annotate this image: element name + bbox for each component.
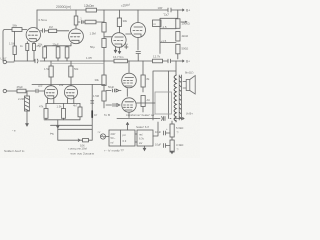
svg-text:AC: AC xyxy=(147,98,151,102)
svg-text:ɦʏ B: ɦʏ B xyxy=(104,113,110,117)
resistor R16 plate V5 xyxy=(69,61,79,85)
svg-text:10ʹ: 10ʹ xyxy=(94,114,98,117)
resistor R10 ladder bottom xyxy=(176,44,188,59)
resistor R11 mid rail decoupling xyxy=(113,55,128,63)
resistor R1 on top rail xyxy=(84,4,97,12)
svg-text:22kʹ: 22kʹ xyxy=(59,83,64,87)
svg-text:240ʹ: 240ʹ xyxy=(111,132,116,136)
capacitor C10 lower rail xyxy=(156,117,165,121)
rectifier box xyxy=(135,130,153,146)
svg-text:47k: 47k xyxy=(39,105,44,109)
node B+ arrow top right xyxy=(180,9,190,13)
svg-text:0.5ma: 0.5ma xyxy=(39,18,48,22)
wire V3 cathode down xyxy=(137,37,139,50)
tube V7 output pentode lower xyxy=(122,98,136,118)
tube V3 triode xyxy=(131,23,146,38)
resistor R4 coupling series xyxy=(85,20,104,24)
svg-text:16.7.5m: 16.7.5m xyxy=(113,55,124,59)
svg-text:B+: B+ xyxy=(186,9,190,13)
wire from rectifier right xyxy=(153,122,158,136)
node arrow lower rail right xyxy=(183,112,194,120)
wire lower B rail xyxy=(117,118,184,120)
resistor R19 cathode V5 xyxy=(57,104,66,120)
svg-text:ᴡʋʋ ʋʊʊ 2ʊɛɯᴌᴡ: ᴡʋʋ ʋʊʊ 2ʊɛɯᴌᴡ xyxy=(71,151,95,155)
wire V7 to transformer xyxy=(136,102,155,104)
svg-text:1.5M: 1.5M xyxy=(93,94,100,98)
resistor R21 chain third xyxy=(95,75,107,86)
svg-text:+1.5: +1.5 xyxy=(161,39,167,43)
wire arrow up from supply xyxy=(126,123,128,131)
ground filter chain xyxy=(171,151,174,153)
resistor R3 grid leak xyxy=(9,31,16,61)
label notes bottom centre xyxy=(69,147,95,156)
tube V2 triode xyxy=(112,33,127,48)
svg-text:2000Ω(m): 2000Ω(m) xyxy=(56,5,71,9)
svg-text:50µF: 50µF xyxy=(108,85,115,89)
tube V6 output pentode upper xyxy=(122,61,137,88)
resistor R27 coupling series xyxy=(49,25,69,33)
svg-text:ʻ7ʌ7: ʻ7ʌ7 xyxy=(163,12,169,17)
resistor R6 chain second xyxy=(90,39,106,50)
tube V4 triode xyxy=(44,85,57,104)
capacitor C1 top right xyxy=(166,8,180,12)
svg-text:6.3v: 6.3v xyxy=(139,137,145,141)
transformer T1 core lines xyxy=(179,75,181,120)
svg-text:4kΩ2: 4kΩ2 xyxy=(182,34,189,38)
svg-text:(h B+: (h B+ xyxy=(186,112,193,116)
wire V7 to V8 link xyxy=(126,89,128,97)
wire tremolo net xyxy=(57,120,80,140)
capacitor C6 cathode bypass xyxy=(53,43,60,62)
svg-text:50∼: 50∼ xyxy=(111,136,117,140)
component TH thermistor box xyxy=(153,20,162,27)
wire cathode bus V4 V5 xyxy=(46,103,80,105)
resistor R24 screen lower xyxy=(141,96,150,113)
svg-text:poʹ: poʹ xyxy=(123,133,127,137)
transformer T2 power box xyxy=(109,130,135,146)
svg-text:8mΩ(ʹ): 8mΩ(ʹ) xyxy=(185,71,193,75)
tube V2 preamp triode xyxy=(69,29,84,46)
svg-text:1.5M: 1.5M xyxy=(9,42,16,46)
ground below rectifier xyxy=(143,146,145,151)
wire V3 plate to rail xyxy=(137,10,139,23)
svg-text:-1.5: -1.5 xyxy=(162,25,167,29)
svg-text:2.2M: 2.2M xyxy=(18,97,25,101)
capacitor C2 coupling from V2 plate xyxy=(78,17,85,24)
svg-text:1M: 1M xyxy=(49,25,54,29)
svg-text:30k: 30k xyxy=(123,19,128,23)
potentiometer P3 bottom xyxy=(78,139,92,148)
svg-text:ᴌoʋɛɥ ᴠʉ 10ʉʹ: ᴌoʋɛɥ ᴠʉ 10ʉʹ xyxy=(69,147,88,151)
svg-text:1.5M: 1.5M xyxy=(90,32,97,36)
svg-text:поʹ: поʹ xyxy=(111,141,115,145)
capacitor C4 on mid rail xyxy=(35,59,38,63)
svg-text:transformerʹ heaterʹ wirʹ: transformerʹ heaterʹ wirʹ xyxy=(126,113,155,117)
wire grid chain vertical x104 xyxy=(103,10,105,108)
svg-text:56k: 56k xyxy=(13,24,18,28)
svg-text:12.7k: 12.7k xyxy=(153,55,161,59)
resistor R5 chain top xyxy=(90,23,107,36)
input jack J1 xyxy=(1,57,15,64)
svg-text:ʹʹ פ: ʹʹ פ xyxy=(12,129,16,133)
svg-text:1.65ʹ: 1.65ʹ xyxy=(86,56,93,60)
wire grid to tube V2 xyxy=(104,36,112,38)
svg-text:L 10ʹ: L 10ʹ xyxy=(1,57,8,61)
tube V1 input triode xyxy=(26,28,40,42)
svg-text:12kΩm: 12kΩm xyxy=(84,4,95,8)
svg-text:100ʹ: 100ʹ xyxy=(158,6,164,10)
wire heater run below rail2 xyxy=(52,63,104,65)
wire input grid from jack xyxy=(3,30,12,62)
wire transformer left leg xyxy=(153,71,176,120)
resistor R7 plate of V2 xyxy=(117,10,127,33)
svg-text:.05µF: .05µF xyxy=(16,85,23,89)
capacitor C16 grid coupling V8 xyxy=(106,104,120,107)
svg-text:10µF: 10µF xyxy=(155,143,162,147)
tube V5 triode xyxy=(64,85,77,104)
resistor R20 tail xyxy=(73,104,82,120)
svg-text:50µ: 50µ xyxy=(90,45,95,49)
resistor R18 cathode V4 xyxy=(39,104,48,120)
svg-text:1.5k: 1.5k xyxy=(44,67,50,71)
svg-text:µ25ʹ: µ25ʹ xyxy=(38,84,43,88)
svg-text:heaterʹ 6.3ʹ: heaterʹ 6.3ʹ xyxy=(136,125,150,129)
svg-text:25µF: 25µF xyxy=(53,43,60,47)
wire drop from rail at x37 V1 plate xyxy=(36,10,38,29)
transformer T1 output primary coil xyxy=(174,75,176,121)
svg-text:2aʹ: 2aʹ xyxy=(139,141,143,145)
svg-text:3.3kΩ: 3.3kΩ xyxy=(176,143,183,147)
svg-text:1.5k: 1.5k xyxy=(57,105,63,109)
node B+ arrow mid rail xyxy=(180,60,190,64)
resistor R9 ladder mid xyxy=(176,32,189,42)
resistor R2 grid series xyxy=(12,24,27,32)
input jack J2 xyxy=(3,89,17,92)
svg-text:+ - lʋʹ mostly ??ʹ: + - lʋʹ mostly ??ʹ xyxy=(104,149,125,153)
svg-text:500Ω: 500Ω xyxy=(182,47,189,51)
wire mid B+ rail xyxy=(14,60,180,62)
wire ladder frame top right xyxy=(160,10,178,54)
svg-text:6.3: 6.3 xyxy=(123,139,127,143)
speaker SP1 xyxy=(183,76,195,95)
power supply AC source xyxy=(98,131,110,139)
ground below V2 cathode xyxy=(114,47,120,53)
capacitor C8 electrolytic right of V5 xyxy=(91,85,98,141)
capacitor C3 cathode bypass xyxy=(125,42,141,61)
resistor R29 V2 plate load xyxy=(74,10,78,29)
resistor R12 mid rail right xyxy=(153,55,163,63)
svg-text:50k: 50k xyxy=(74,67,79,71)
svg-text:5.6kΩ: 5.6kΩ xyxy=(176,126,183,130)
capacitor C5 mid rail right xyxy=(168,59,173,63)
wire transformer primary lead xyxy=(168,71,170,119)
wire plate join y84.5 xyxy=(32,84,105,86)
capacitor C9 coupling to V7 xyxy=(106,85,121,92)
resistor R23 screen upper xyxy=(141,61,150,92)
resistor R15 plate V4 xyxy=(44,61,53,85)
capacitor C13 filter 2 xyxy=(155,143,170,148)
wire ground bus xyxy=(44,120,92,130)
svg-text:1µ: 1µ xyxy=(125,42,128,46)
svg-text:recʹ: recʹ xyxy=(139,133,144,137)
capacitor C14 V1 plate coupling xyxy=(41,29,49,33)
capacitor C7 input xyxy=(36,89,45,93)
resistor R26 filter bottom xyxy=(170,140,183,152)
wire top B+ rail xyxy=(37,9,166,11)
svg-text:10µF: 10µF xyxy=(155,130,162,134)
wire right filter chain xyxy=(171,121,173,154)
capacitor C12 filter xyxy=(155,128,170,135)
wire V2 cathode bus xyxy=(45,45,72,47)
choke box faint xyxy=(155,92,172,114)
wire transformer top to mid rail xyxy=(175,61,177,75)
svg-text:4k7: 4k7 xyxy=(73,104,78,108)
wire transformer bottom xyxy=(175,120,177,122)
resistor R28 V1 cathode xyxy=(20,42,29,61)
resistor R13 cathode xyxy=(38,43,47,62)
resistor R25 filter top xyxy=(170,124,183,137)
svg-text:Sʊldenʹ Aʋolʹ lʊ: Sʊldenʹ Aʋolʹ lʊ xyxy=(4,149,25,153)
wire V3 plate to V4 grid xyxy=(126,33,131,35)
resistor R14 cathode 2 xyxy=(65,46,69,61)
resistor R8 ladder top xyxy=(176,19,190,29)
capacitor C15 V1 cathode bypass xyxy=(33,42,42,61)
resistor R22 chain fourth xyxy=(93,91,106,101)
svg-text:30k: 30k xyxy=(95,78,100,82)
svg-text:25k: 25k xyxy=(38,43,43,47)
ground arrow below P2 xyxy=(26,111,29,126)
svg-text:B+: B+ xyxy=(186,60,190,64)
resistor R17 input series xyxy=(16,85,36,93)
potentiometer P2 volume xyxy=(18,91,30,111)
svg-text:⊢b: ⊢b xyxy=(50,132,54,136)
